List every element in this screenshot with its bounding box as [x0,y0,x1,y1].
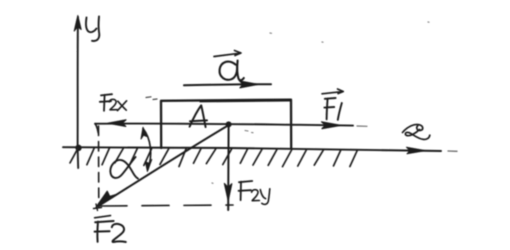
dashed horizontal construction line [100,205,233,206]
label F2 with vector bar [95,216,111,218]
block (rectangle) [161,100,291,149]
angle alpha arc [143,129,151,170]
left end corner tick [95,124,98,133]
label y [86,17,99,41]
point A dot [226,121,232,127]
label a [220,61,244,81]
force line through A (F2x left / F1 right) [95,123,353,125]
label A [190,105,207,127]
stray specks right of A [245,131,253,133]
faint dash after F1 head [357,125,367,127]
a arrowhead [240,81,259,88]
a vector bar [214,51,241,57]
acceleration arrow a [184,84,271,85]
arc top arrowhead [141,127,147,139]
arc bottom arrowhead [145,160,151,172]
F2y vertical arrow [227,125,229,210]
tick at F2 tip [94,204,102,211]
block top edge second stroke [200,100,290,103]
label F2y [239,181,253,200]
F2 arrowhead [96,191,115,207]
label alpha [110,157,138,179]
ground hatching [70,148,357,166]
label F2x [100,94,112,111]
x-axis arrowhead [407,147,426,154]
origin dot [75,145,81,151]
x-axis [63,147,441,151]
x-axis faint end dash [448,150,457,152]
F1 arrowhead [322,122,341,129]
y-axis arrowhead [74,16,81,32]
force F2 diagonal [99,125,230,206]
faint specks top area [212,22,429,183]
label F1 with vector bar [324,98,335,119]
y-axis [77,17,80,168]
F2y arrowhead [224,184,231,201]
stray marks near block top-left [146,97,157,100]
F2x arrowhead [108,120,126,127]
label x (cursive) [403,124,430,139]
dashed vertical construction line [98,126,100,207]
